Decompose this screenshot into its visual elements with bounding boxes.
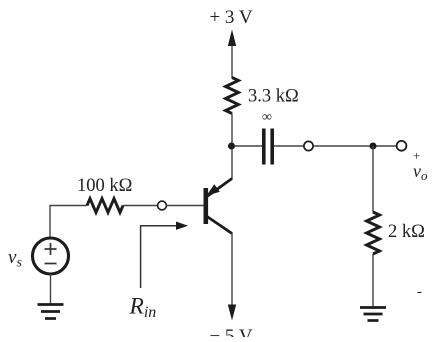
svg-text:+ 3 V: + 3 V [209,7,252,28]
supply arrow -5V [228,305,236,321]
ground left [38,305,64,319]
wire source to ground [50,274,52,304]
wire node to capacitor [235,145,262,147]
svg-text:-: - [417,284,422,300]
wire capacitor to terminal [274,145,304,147]
terminal base open circle [158,201,167,210]
wire collector to supply arrow [231,233,233,306]
resistor RB 100 kOhm [87,199,123,213]
wire source to 100k resistor [50,206,87,239]
svg-text:∞: ∞ [262,110,272,125]
svg-text:2 kΩ: 2 kΩ [388,222,425,242]
source vs circle [33,238,69,274]
resistor RC 3.3 kOhm [226,78,239,114]
wire base terminal to transistor base [167,205,204,207]
wire output node to 2k resistor [372,146,374,213]
capacitor C (infinite) [264,129,272,165]
wire 100k resistor to base terminal [123,205,158,207]
node output junction dot [370,143,377,150]
terminal vo open circle [397,141,407,151]
Rin pointer arrow [141,222,188,289]
svg-text:vo: vo [413,161,428,183]
terminal open circle after capacitor [304,141,313,150]
svg-text:3.3 kΩ: 3.3 kΩ [248,87,299,107]
ground right [360,308,386,321]
transistor Q1 (pnp) [206,179,232,234]
svg-text:100 kΩ: 100 kΩ [77,176,132,196]
resistor RL 2 kOhm [367,212,380,254]
node junction dot [228,143,235,150]
wire 2k resistor to ground [372,254,374,307]
svg-text:vs: vs [8,247,22,271]
svg-text:− 5 V: − 5 V [209,326,252,337]
wire terminal to output node [313,145,397,147]
wire rail resistor to node [231,114,233,180]
svg-text:Rin: Rin [129,294,157,322]
supply arrow +3V [228,30,236,79]
